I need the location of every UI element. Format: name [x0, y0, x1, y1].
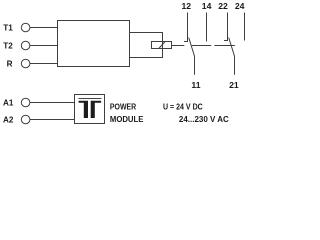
wire R to module: [30, 63, 58, 65]
svg-text:22: 22: [218, 1, 228, 11]
svg-text:12: 12: [182, 1, 192, 11]
svg-text:A1: A1: [3, 97, 14, 107]
terminal label 21: [229, 80, 239, 90]
terminal label 12: [182, 1, 192, 11]
svg-text:21: 21: [229, 80, 239, 90]
terminal label R: [7, 58, 13, 68]
svg-text:MODULE: MODULE: [110, 115, 144, 124]
wire A2 to logo box: [30, 119, 75, 121]
terminal circle R: [21, 59, 30, 68]
terminal circle T2: [21, 41, 30, 50]
text MODULE: [110, 115, 144, 124]
terminal line 21 (common): [234, 56, 236, 75]
wire T1 to module: [30, 27, 58, 29]
contact lever 21-22/24: [229, 38, 235, 57]
terminal line 11 (common): [194, 56, 196, 75]
mechanical link dash 3: [214, 45, 235, 47]
svg-text:11: 11: [191, 80, 200, 90]
svg-text:24: 24: [235, 1, 245, 11]
contact tip tick 12: [184, 41, 188, 43]
terminal label T1: [3, 22, 13, 32]
svg-text:A2: A2: [3, 114, 14, 124]
svg-text:14: 14: [202, 1, 212, 11]
contact tip tick 22: [224, 40, 228, 42]
terminal line 22 (NC contact): [227, 13, 229, 41]
terminal label A2: [3, 114, 14, 124]
module body box: [58, 21, 130, 67]
svg-text:24...230 V AC: 24...230 V AC: [179, 114, 229, 124]
logo left glyph: [79, 101, 88, 118]
wire A1 to logo box: [30, 102, 75, 104]
text U = 24 V DC: [163, 102, 203, 112]
terminal circle T1: [21, 23, 30, 32]
terminal label A1: [3, 97, 14, 107]
terminal label 11: [191, 80, 200, 90]
terminal line 24 (NO contact): [244, 13, 246, 41]
text 24...230 V AC: [179, 114, 229, 124]
terminal label 14: [202, 1, 212, 11]
relay housing box: [130, 33, 163, 58]
svg-text:T1: T1: [3, 22, 13, 32]
terminal label T2: [3, 40, 13, 50]
text POWER: [110, 102, 137, 112]
mechanical link dash 1: [172, 45, 185, 47]
terminal circle A1: [21, 98, 30, 107]
relay coil K1 (rectangle with diagonal): [152, 42, 172, 49]
terminal label 24: [235, 1, 245, 11]
wire T2 to module: [30, 45, 58, 47]
contact lever 11-12/14: [189, 38, 195, 57]
svg-text:U = 24 V DC: U = 24 V DC: [163, 102, 203, 112]
logo right glyph: [91, 101, 101, 118]
terminal line 14 (NO contact): [206, 13, 208, 42]
logo box: [75, 95, 105, 124]
mechanical link dash 2: [192, 45, 211, 47]
svg-text:R: R: [7, 58, 13, 68]
terminal circle A2: [21, 115, 30, 124]
terminal label 22: [218, 1, 228, 11]
svg-text:T2: T2: [3, 40, 13, 50]
terminal line 12 (NC contact): [187, 13, 189, 42]
logo top line: [79, 98, 102, 100]
svg-text:POWER: POWER: [110, 102, 137, 112]
